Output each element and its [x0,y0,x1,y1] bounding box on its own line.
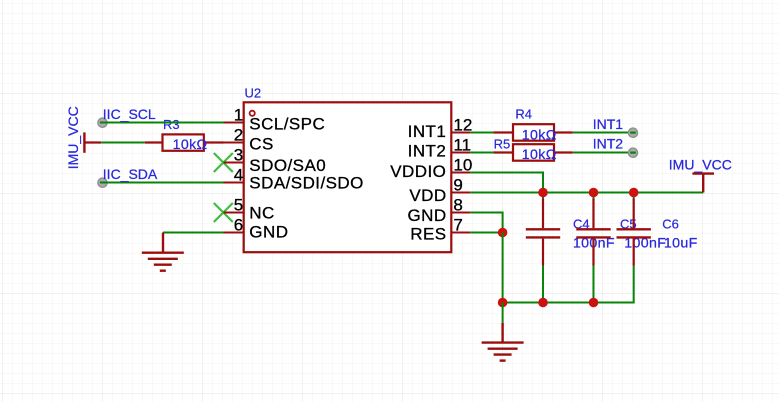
ground (bottom) [482,323,524,361]
pin 7 [451,232,470,234]
svg-text:5: 5 [234,196,243,215]
svg-text:R4: R4 [515,107,532,122]
svg-text:GND: GND [407,206,446,225]
svg-text:SDO/SA0: SDO/SA0 [249,156,326,175]
power port IMU_VCC (right) [692,174,714,193]
wire pin 11 to R5 [470,152,493,154]
pin 5 [224,212,244,214]
svg-text:IMU_VCC: IMU_VCC [65,106,81,169]
wire R5 to INT2 [573,152,633,154]
svg-text:8: 8 [453,196,462,215]
capacitor C5 [576,193,610,303]
resistor R4 [493,124,573,141]
IC U2 body [244,102,452,252]
svg-text:10kΩ: 10kΩ [173,137,208,153]
pin 4 [224,182,244,184]
resistor R3 [145,134,224,150]
resistor R5 [493,144,573,161]
svg-text:IMU_VCC: IMU_VCC [669,156,732,172]
svg-text:10kΩ: 10kΩ [522,147,557,163]
node INT2 pin [628,148,637,157]
pin 10 [451,172,470,174]
pin 11 [451,152,470,154]
svg-text:4: 4 [234,166,243,185]
wire IMU_VCC to R3 [101,142,145,144]
wire VDD rail [470,192,703,194]
svg-text:6: 6 [234,216,243,235]
svg-text:10: 10 [453,156,472,175]
svg-text:3: 3 [234,146,243,165]
svg-text:CS: CS [249,135,274,154]
svg-text:10kΩ: 10kΩ [522,127,557,143]
svg-text:U2: U2 [245,85,262,100]
wire pin 8 down to pin 7 junction [470,213,502,233]
pin 9 [451,192,470,194]
junction VDDIO/C4 on VDD rail [538,188,548,198]
junction C4 bottom [538,298,548,308]
svg-text:9: 9 [453,176,462,195]
junction ground tap [498,298,508,308]
node IIC_SCL pin [98,118,107,127]
svg-text:SCL/SPC: SCL/SPC [249,114,325,133]
junction C5 on VDD rail [589,188,599,198]
ground (left) [142,233,184,271]
wire pin 12 to R4 [470,132,493,134]
svg-text:1: 1 [234,106,243,125]
capacitor C6 [617,193,651,266]
svg-text:C6: C6 [662,216,679,231]
svg-text:11: 11 [453,136,471,155]
pin 12 [451,132,470,134]
pin 3 [224,162,244,164]
svg-text:R5: R5 [494,136,511,151]
no-connect X pin 5 [214,203,233,222]
svg-text:INT2: INT2 [408,141,447,160]
svg-text:RES: RES [410,225,446,244]
svg-text:VDD: VDD [409,186,446,205]
svg-text:NC: NC [249,204,274,223]
pin 1 indicator dot [250,111,255,116]
wire ground stub [502,303,504,323]
wire IIC_SDA to pin 4 [100,182,224,184]
svg-text:INT1: INT1 [408,122,447,141]
svg-text:2: 2 [234,126,243,145]
node INT1 pin [628,128,637,137]
svg-text:10uF: 10uF [664,236,698,252]
pin 6 [224,232,244,234]
wire pin 7 to junction [470,232,502,234]
svg-text:12: 12 [453,116,472,135]
svg-text:7: 7 [453,216,462,235]
junction RES/GND [498,228,508,238]
wire pin 6 to GND [163,232,224,234]
node IIC_SDA pin [98,178,107,187]
capacitor C4 [526,193,560,303]
wire pin 10 VDDIO down to VDD rail [470,173,543,193]
pin 2 [224,142,244,144]
no-connect X pin 3 [214,153,233,172]
svg-text:INT2: INT2 [593,136,624,152]
junction C6 on VDD rail [629,188,639,198]
wire bottom ground rail [503,266,634,303]
svg-text:R3: R3 [163,117,180,132]
svg-text:VDDIO: VDDIO [390,162,446,181]
svg-text:GND: GND [249,223,288,242]
wire junction down to bottom rail [502,233,504,303]
svg-text:INT1: INT1 [593,116,624,132]
junction C5 bottom [589,298,599,308]
pin 1 [224,122,244,124]
svg-text:IIC_SCL: IIC_SCL [103,106,156,122]
pin 8 [451,212,470,214]
svg-text:IIC_SDA: IIC_SDA [103,166,158,182]
power port IMU_VCC (left) [65,106,101,169]
wire IIC_SCL to pin 1 [100,122,224,124]
wire R4 to INT1 [573,132,633,134]
svg-text:SDA/SDI/SDO: SDA/SDI/SDO [249,174,364,193]
